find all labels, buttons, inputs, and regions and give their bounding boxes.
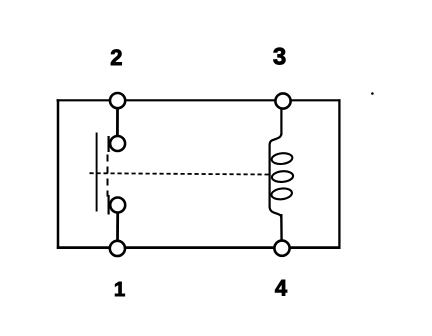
- svg-text:1: 1: [114, 278, 125, 301]
- svg-text:3: 3: [273, 43, 286, 70]
- svg-text:4: 4: [275, 276, 288, 301]
- svg-text:2: 2: [110, 45, 122, 70]
